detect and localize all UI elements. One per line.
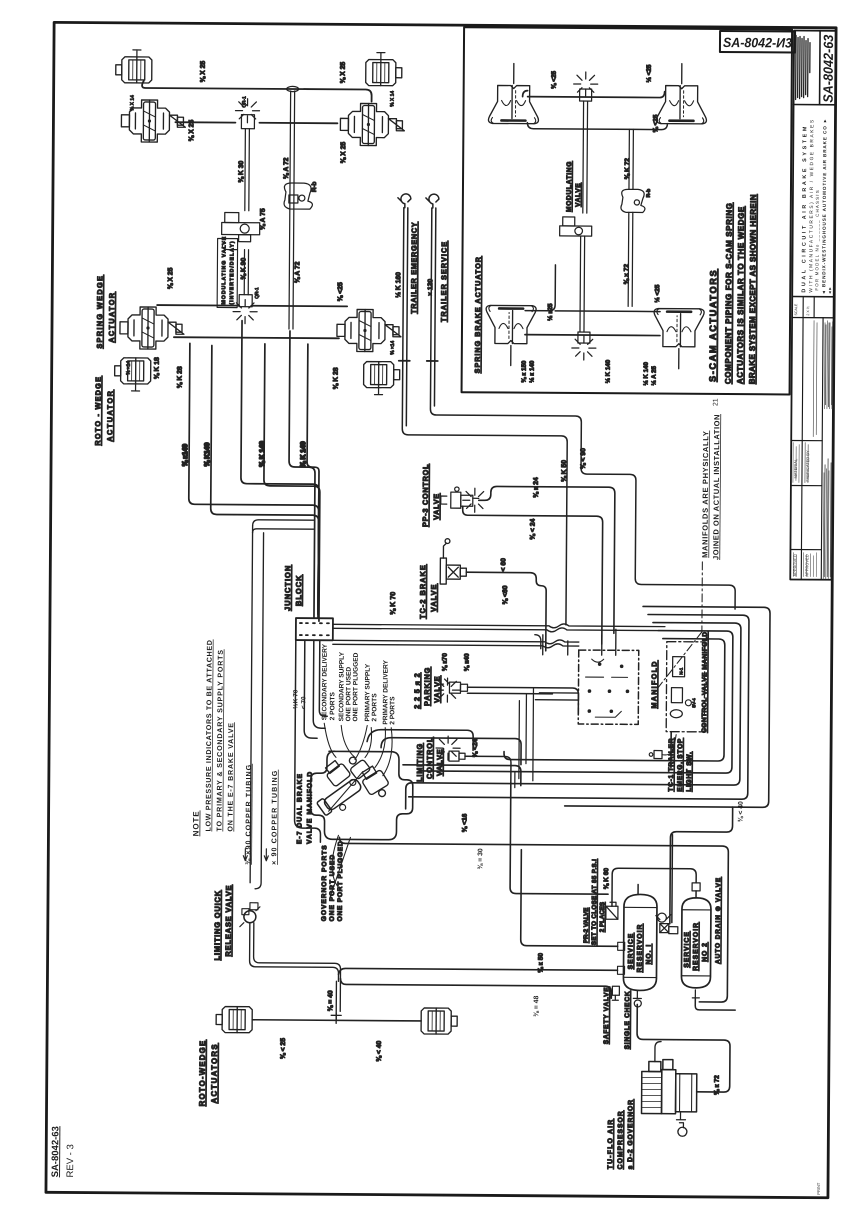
svg-text:⅜ K 28: ⅜ K 28 bbox=[333, 367, 340, 389]
inset panel box bbox=[462, 27, 793, 394]
single check fitting between reservoirs bbox=[656, 915, 678, 934]
svg-text:ON THE E-7 BRAKE VALVE: ON THE E-7 BRAKE VALVE bbox=[226, 722, 235, 831]
s-cam actuator inset bottom-left bbox=[486, 305, 536, 343]
svg-text:2 PORTS: 2 PORTS bbox=[371, 693, 378, 722]
wire: bundle below block a bbox=[304, 640, 318, 738]
res2 top fitting bbox=[692, 883, 700, 891]
svg-text:½ ˂25: ½ ˂25 bbox=[645, 64, 653, 82]
svg-text:× 120: × 120 bbox=[427, 279, 434, 296]
leader dash-dot bbox=[653, 562, 702, 694]
svg-text:PR-2 VALVE: PR-2 VALVE bbox=[583, 908, 590, 944]
svg-text:× 90 COPPER TUBING: × 90 COPPER TUBING bbox=[270, 770, 279, 865]
svg-text:NO. I: NO. I bbox=[646, 944, 653, 965]
svg-text:TC-1 TRAILER: TC-1 TRAILER bbox=[668, 738, 675, 792]
svg-text:⅜ K 90: ⅜ K 90 bbox=[240, 258, 247, 280]
wire: modulating valve down to QR-1 rear bbox=[244, 250, 248, 295]
wire: trailer service line bbox=[429, 208, 738, 609]
title strip: record cells bbox=[801, 318, 803, 580]
wire: trailer emergency line bbox=[401, 208, 569, 625]
svg-text:⅜ ˂25: ⅜ ˂25 bbox=[652, 114, 659, 132]
svg-text:VALVE MANIFOLD: VALVE MANIFOLD bbox=[306, 771, 314, 844]
svg-text:⅜ K140: ⅜ K140 bbox=[204, 442, 211, 466]
res1 top stub bbox=[637, 884, 639, 894]
svg-text:⅜ ˂60: ⅜ ˂60 bbox=[502, 585, 509, 604]
svg-text:2 X ½: 2 X ½ bbox=[806, 306, 810, 315]
TC-1 switch symbol bbox=[654, 751, 662, 759]
svg-text:⅜ ˂16: ⅜ ˂16 bbox=[461, 813, 468, 832]
wire: inset modulating to bottom burst bbox=[580, 236, 585, 332]
wire: loop drop to check fitting bbox=[670, 732, 733, 924]
spring wedge actuator front-right bbox=[340, 103, 404, 145]
svg-text:⅜ × 72: ⅜ × 72 bbox=[623, 264, 630, 285]
svg-text:⅜ A 72: ⅜ A 72 bbox=[283, 157, 290, 179]
stem front-right bbox=[377, 53, 385, 60]
svg-text:MATERIAL: MATERIAL bbox=[793, 458, 798, 479]
service reservoir no 1 bbox=[623, 894, 657, 990]
svg-text:R-b: R-b bbox=[311, 181, 318, 192]
svg-text:E-7 DUAL BRAKE: E-7 DUAL BRAKE bbox=[296, 773, 303, 844]
svg-text:VALVE: VALVE bbox=[432, 675, 441, 703]
svg-text:⅜ K 60: ⅜ K 60 bbox=[603, 868, 610, 890]
svg-text:⅜ ˂25: ⅜ ˂25 bbox=[551, 70, 558, 88]
svg-text:⅜ = 48: ⅜ = 48 bbox=[533, 996, 540, 1017]
trailer service hook bbox=[426, 194, 439, 208]
arrow copper 1 bbox=[243, 849, 247, 861]
svg-text:AUTO DRAIN ⊘ VALVE: AUTO DRAIN ⊘ VALVE bbox=[715, 877, 723, 964]
wire: inset right drop bbox=[628, 129, 633, 306]
svg-text:SA-8042-63: SA-8042-63 bbox=[821, 34, 836, 103]
limiting control valve body bbox=[449, 751, 465, 761]
trailer emergency hook bbox=[398, 194, 411, 208]
svg-text:CONTROL VALVE MANIFOLD: CONTROL VALVE MANIFOLD bbox=[701, 631, 709, 732]
wire: bundle into manifold top bbox=[543, 629, 616, 656]
svg-text:⅜ ˂24: ⅜ ˂24 bbox=[472, 738, 479, 757]
valve body port 2 bbox=[344, 752, 371, 779]
LQR valve body bbox=[244, 911, 256, 923]
svg-text:2 PLACES: 2 PLACES bbox=[599, 902, 606, 932]
manifold inner marks bbox=[585, 659, 627, 717]
svg-text:LIMITING QUICK: LIMITING QUICK bbox=[213, 890, 222, 961]
svg-text:NO 2: NO 2 bbox=[702, 942, 709, 962]
wire: parking valve outlet bbox=[467, 687, 578, 714]
svg-text:VALVE: VALVE bbox=[435, 748, 444, 776]
s-cam actuator inset bottom-right bbox=[654, 309, 704, 347]
svg-text:½ ˂25: ½ ˂25 bbox=[653, 284, 661, 302]
valve QR inset top bbox=[580, 89, 592, 101]
wire: drop pipe F bbox=[306, 344, 320, 618]
svg-text:MANIFOLD: MANIFOLD bbox=[650, 660, 658, 708]
svg-text:COMPRESSOR: COMPRESSOR bbox=[617, 1110, 624, 1169]
svg-text:S-CAM ACTUATORS: S-CAM ACTUATORS bbox=[708, 269, 719, 382]
svg-text:BRAKE SYSTEM EXCEPT AS SHO: BRAKE SYSTEM EXCEPT AS SHOWN HEREIN bbox=[748, 194, 758, 384]
valve QR inset bottom bbox=[578, 332, 590, 343]
svg-text:⅜ K 30: ⅜ K 30 bbox=[238, 160, 245, 182]
svg-text:½ K 140: ½ K 140 bbox=[643, 362, 650, 386]
svg-text:◄ BENDIX-WESTINGHOUSE AUTOMOTI: ◄ BENDIX-WESTINGHOUSE AUTOMOTIVE AIR BRA… bbox=[821, 118, 827, 295]
wire: res2 bottom drop bbox=[695, 998, 735, 1010]
svg-text:⅜ к70: ⅜ к70 bbox=[442, 653, 449, 671]
svg-text:SPRING BRAKE ACTUATOR: SPRING BRAKE ACTUATOR bbox=[474, 256, 483, 373]
title strip: drawing title cell bbox=[792, 296, 834, 298]
svg-text:SA-8042-И3: SA-8042-И3 bbox=[723, 35, 793, 50]
spring wedge actuator rear-left bbox=[120, 307, 184, 349]
roto-wedge actuator rear-left bbox=[115, 358, 151, 384]
wire: PP-3 outlet lower bbox=[462, 506, 603, 644]
roto-wedge actuator bottom-left bbox=[216, 1006, 252, 1032]
wire: loop 4 bbox=[504, 638, 725, 762]
svg-text:QR-1: QR-1 bbox=[242, 96, 248, 108]
svg-text:⅜ ˂ 24: ⅜ ˂ 24 bbox=[530, 518, 537, 539]
svg-text:TRAILER SERVICE: TRAILER SERVICE bbox=[439, 241, 449, 322]
wire: long run y985 bbox=[340, 978, 611, 998]
title strip: scale cell bbox=[792, 316, 834, 318]
wire: TC-2 outlet bbox=[466, 572, 547, 651]
svg-text:JUNCTION: JUNCTION bbox=[283, 565, 292, 611]
roto-wedge actuator bottom-right bbox=[421, 1008, 457, 1034]
svg-text:MODULATING VALVE: MODULATING VALVE bbox=[221, 236, 227, 305]
svg-text:SERVICE: SERVICE bbox=[684, 931, 691, 968]
svg-text:½ к 140: ½ к 140 bbox=[529, 360, 536, 383]
svg-text:NOTE: NOTE bbox=[191, 810, 200, 836]
inner valve bottom bbox=[670, 710, 682, 718]
wire: center drop to check bbox=[671, 835, 674, 923]
wire: block outlet pair right lower bbox=[333, 638, 579, 648]
svg-text:⅜ = 40: ⅜ = 40 bbox=[327, 990, 334, 1011]
R-6 inset relay bbox=[621, 189, 645, 212]
svg-text:RESERVOIR: RESERVOIR bbox=[637, 924, 644, 973]
stem rear-right bbox=[375, 388, 383, 395]
svg-text:⅜ к40: ⅜ к40 bbox=[464, 653, 471, 671]
svg-text:˂ 60: ˂ 60 bbox=[500, 558, 507, 572]
svg-text:⅜ к 50: ⅜ к 50 bbox=[537, 953, 544, 973]
manifold dashed box bbox=[578, 650, 639, 724]
svg-text:⅜ X 25: ⅜ X 25 bbox=[167, 267, 174, 289]
svg-text:⅜ X 25: ⅜ X 25 bbox=[200, 61, 207, 83]
leader bbox=[662, 735, 676, 755]
svg-text:⅜ ˂25: ⅜ ˂25 bbox=[337, 282, 344, 301]
wire: drop pipe E bbox=[288, 331, 316, 618]
svg-text:PARKING: PARKING bbox=[422, 667, 431, 706]
roto-wedge actuator front-right bbox=[366, 60, 402, 86]
wire: rear axle lower pipe bbox=[174, 337, 339, 338]
junction oval on top pipe bbox=[287, 86, 299, 91]
svg-text:2 PORTS: 2 PORTS bbox=[329, 691, 336, 720]
wire: cluster top right run 2 bbox=[381, 738, 521, 765]
svg-text:ACTUATORS IS SIMILAR TO TH: ACTUATORS IS SIMILAR TO THE WEDGE bbox=[736, 206, 746, 384]
valve body port 3 bbox=[358, 764, 393, 802]
parking valve body bbox=[438, 679, 467, 693]
svg-text:⅜ K 140: ⅜ K 140 bbox=[259, 441, 266, 467]
wire: front axle lower pipe bbox=[175, 122, 337, 123]
svg-text:N-1: N-1 bbox=[679, 667, 684, 675]
svg-text:ONE PORT PLUGGED: ONE PORT PLUGGED bbox=[337, 841, 345, 922]
wire: vertical from top pipe junction down to rear axle bbox=[289, 91, 295, 329]
svg-text:LIMITING: LIMITING bbox=[415, 743, 424, 782]
wire: res1 bottom to compressor loop bbox=[637, 1004, 731, 1092]
arrow copper 2 bbox=[264, 849, 268, 861]
svg-text:SPRING WEDGE: SPRING WEDGE bbox=[95, 275, 105, 349]
wire: bundle below block c bbox=[319, 640, 328, 716]
wire: loop outermost bbox=[565, 606, 770, 807]
TC-2 valve body (treadle) bbox=[440, 539, 466, 585]
svg-text:RELEASE VALVE: RELEASE VALVE bbox=[224, 885, 234, 957]
port circles bbox=[350, 779, 356, 785]
wire: PP-3 outlet upper bbox=[478, 486, 615, 633]
wire: compressor inlet from single check drop bbox=[655, 1042, 661, 1062]
svg-text:SERVICE: SERVICE bbox=[628, 933, 635, 970]
wire: cluster-loop verticals bbox=[515, 688, 534, 788]
relay valve R-6 bbox=[284, 183, 313, 209]
leaders from labels to cluster bbox=[324, 723, 392, 775]
svg-text:RESERVOIR: RESERVOIR bbox=[693, 922, 700, 971]
svg-text:SET TO CLOSE AT 85 P.S.I: SET TO CLOSE AT 85 P.S.I bbox=[591, 859, 599, 945]
wire: copper tube vertical pair bbox=[250, 526, 264, 889]
svg-text:ACTUATOR: ACTUATOR bbox=[107, 292, 116, 343]
title strip outline bbox=[790, 31, 836, 580]
valve body main barrel bbox=[317, 776, 364, 816]
wire: copper tube branch pair to left bbox=[253, 520, 314, 533]
svg-text:ROTO-WEDGE: ROTO-WEDGE bbox=[198, 1040, 207, 1107]
svg-text:⅜ = 30: ⅜ = 30 bbox=[477, 848, 484, 869]
svg-text:ѕ D-2 GOVERNOR: ѕ D-2 GOVERNOR bbox=[627, 1099, 634, 1169]
wire: front axle top pipe bbox=[142, 81, 372, 102]
svg-text:⅜ к 24: ⅜ к 24 bbox=[533, 477, 540, 498]
svg-text:SV-4: SV-4 bbox=[691, 698, 696, 708]
svg-text:⅜ ˂ 40: ⅜ ˂ 40 bbox=[738, 801, 745, 822]
inner valve N-1 bbox=[673, 657, 685, 677]
governor stem and ball bbox=[676, 1112, 685, 1128]
valve QR-1 front with body bbox=[241, 115, 254, 129]
junction block body bbox=[296, 618, 333, 640]
svg-text:⅜ ×14: ⅜ ×14 bbox=[390, 340, 396, 354]
svg-text:⅜ к140: ⅜ к140 bbox=[182, 444, 189, 467]
svg-text:ROTO - WEDGE: ROTO - WEDGE bbox=[93, 376, 102, 446]
svg-text:CONTROL: CONTROL bbox=[425, 737, 434, 779]
wire: QR-1 down to modulating valve bbox=[245, 129, 250, 211]
svg-text:⅜ X 25: ⅜ X 25 bbox=[188, 120, 195, 142]
svg-text:½ A 25: ½ A 25 bbox=[651, 365, 658, 385]
manifold outline bbox=[310, 751, 413, 840]
compressor body bbox=[642, 1059, 697, 1113]
svg-text:FOR MODEL No ______ CHASSIS: FOR MODEL No ______ CHASSIS bbox=[814, 189, 820, 291]
wire: inset top second pipe bbox=[527, 123, 667, 130]
roto-wedge actuator rear-right bbox=[364, 362, 400, 388]
stem front-left bbox=[133, 50, 141, 57]
svg-text:BLOCK: BLOCK bbox=[294, 574, 303, 606]
wire: inset modulating drop bbox=[583, 101, 588, 213]
wire: long run y968 to reservoir bbox=[338, 968, 617, 976]
svg-text:VALVE: VALVE bbox=[429, 583, 438, 612]
svg-text:⅜ X 14: ⅜ X 14 bbox=[390, 91, 396, 107]
svg-text:JOINED ON ACTUAL INSTALLATI: JOINED ON ACTUAL INSTALLATION bbox=[711, 414, 721, 560]
wire: inset bottom axle pipe bbox=[525, 265, 660, 312]
wire: limiting drop to y893 run bbox=[510, 783, 609, 895]
svg-text:EMERG. STOP: EMERG. STOP bbox=[677, 738, 684, 792]
svg-text:⅜ ˂ 90: ⅜ ˂ 90 bbox=[580, 448, 587, 469]
wire: loop 2 bbox=[406, 621, 741, 811]
wire: cluster top right run 1 bbox=[367, 730, 473, 751]
svg-text:ACTUATOR: ACTUATOR bbox=[105, 390, 114, 442]
spring wedge actuator front-left bbox=[121, 100, 185, 142]
svg-text:⅜ ˂ 40: ⅜ ˂ 40 bbox=[376, 1040, 383, 1061]
wire: long run y845 bbox=[338, 837, 728, 1002]
svg-text:SAFETY VALVE: SAFETY VALVE bbox=[603, 987, 610, 1045]
svg-text:SECONDARY DELIVERY: SECONDARY DELIVERY bbox=[321, 643, 329, 720]
svg-text:COMPONENT PIPING FOR S-CAM: COMPONENT PIPING FOR S-CAM SPRING bbox=[724, 202, 734, 384]
wire: drop pipe A bbox=[188, 343, 320, 614]
s-cam actuator inset top-right bbox=[656, 86, 706, 124]
svg-text:TRAILER EMERGENCY: TRAILER EMERGENCY bbox=[409, 222, 419, 314]
wire: inset top axle pipe bbox=[523, 91, 665, 98]
svg-text:⅜ A 75: ⅜ A 75 bbox=[260, 208, 267, 230]
svg-text:GOVERNOR PORTS: GOVERNOR PORTS bbox=[321, 844, 329, 921]
svg-text:LOW PRESSURE INDICATORS TO: LOW PRESSURE INDICATORS TO BE ATTACHED bbox=[204, 639, 213, 831]
wire: loop 3 bbox=[421, 629, 733, 773]
manifold dots bbox=[588, 662, 630, 713]
inner valve SV-4 bbox=[671, 688, 682, 703]
roto-wedge actuator front-left bbox=[116, 57, 152, 83]
svg-text:PP-3 CONTROL: PP-3 CONTROL bbox=[421, 464, 430, 527]
res2 bottom fitting bbox=[692, 990, 699, 998]
res1 bottom fitting + single check bbox=[633, 990, 641, 1007]
PP-3 valve body bbox=[441, 487, 479, 508]
wire: axle rod bbox=[252, 1020, 421, 1021]
wire: left jogs into manifold bbox=[534, 635, 578, 700]
svg-text:ACTUATORS: ACTUATORS bbox=[210, 1043, 219, 1104]
wire: cluster right run 3 bbox=[403, 765, 521, 786]
service reservoir no 2 bbox=[681, 898, 711, 988]
svg-text:½ к25: ½ к25 bbox=[546, 303, 554, 321]
wire: continue down to roto-wedge tee bbox=[336, 981, 340, 1020]
svg-text:LIGHT SW.: LIGHT SW. bbox=[686, 751, 693, 791]
svg-text:½ K 160: ½ K 160 bbox=[394, 272, 402, 298]
svg-text:⅜ K 50: ⅜ K 50 bbox=[561, 460, 568, 482]
svg-text:TO PRIMARY & SECONDARY SUP: TO PRIMARY & SECONDARY SUPPLY PORTS bbox=[215, 649, 224, 831]
modulating valve label box bbox=[217, 238, 237, 307]
svg-text:QR-1: QR-1 bbox=[254, 287, 260, 299]
inset modulating valve bbox=[560, 217, 592, 236]
svg-text:PRINT: PRINT bbox=[816, 1182, 821, 1195]
wire: bundle below block b bbox=[313, 640, 326, 728]
svg-text:DUAL CIRCUIT AIR BRAKE SYSTEM: DUAL CIRCUIT AIR BRAKE SYSTEM bbox=[801, 124, 808, 293]
svg-text:VALVE: VALVE bbox=[575, 183, 582, 207]
wire: LQR down and right to roto line bbox=[249, 923, 340, 982]
stems inset bbox=[511, 63, 682, 369]
wire: limiting valve outlet bbox=[465, 756, 511, 782]
svg-text:R-b: R-b bbox=[646, 189, 652, 198]
svg-text:TU-FLO AIR: TU-FLO AIR bbox=[607, 1119, 614, 1170]
stem rear-left bbox=[132, 384, 140, 391]
wire: rear axle top pipe bbox=[157, 305, 347, 306]
svg-text:½ K 140: ½ K 140 bbox=[605, 359, 612, 383]
svg-text:SINGLE CHECK: SINGLE CHECK bbox=[624, 991, 631, 1050]
svg-text:⅜ X 25: ⅜ X 25 bbox=[340, 62, 347, 84]
title strip: number cell bbox=[819, 31, 822, 105]
tick union emergency bbox=[399, 360, 410, 362]
wire: loop outer bbox=[409, 613, 749, 799]
drawing number box top right bbox=[720, 31, 795, 53]
wire: drop pipe C bbox=[240, 321, 320, 612]
modulating valve body bbox=[222, 213, 260, 250]
svg-text:FABRICATED BY: FABRICATED BY bbox=[805, 450, 810, 482]
PR-2 valve bbox=[606, 902, 618, 919]
safety valve symbol bbox=[612, 986, 619, 1000]
s-cam actuator inset top-left bbox=[488, 85, 538, 123]
svg-text:⅜ к 150: ⅜ к 150 bbox=[521, 360, 528, 383]
wire: cluster feed down left bbox=[294, 640, 321, 842]
svg-text:APPROVED: APPROVED bbox=[804, 554, 809, 576]
wire: drop pipe B bbox=[210, 345, 320, 614]
svg-text:VALVE: VALVE bbox=[432, 493, 441, 520]
svg-text:◄►: ◄► bbox=[827, 286, 832, 294]
svg-text:21: 21 bbox=[712, 398, 719, 406]
svg-text:SA-8042-63: SA-8042-63 bbox=[50, 1126, 61, 1177]
valve QR-1 rear with burst bbox=[239, 295, 252, 307]
svg-text:⅜ K 140: ⅜ K 140 bbox=[300, 441, 307, 467]
svg-text:REV - 3: REV - 3 bbox=[65, 1144, 76, 1177]
svg-text:MODULATING: MODULATING bbox=[566, 161, 573, 212]
spring wedge actuator rear-right bbox=[337, 309, 401, 351]
wire: inset bottom second pipe bbox=[525, 334, 660, 337]
valve body port 1 bbox=[322, 758, 351, 787]
svg-text:⅜ к 72: ⅜ к 72 bbox=[714, 1075, 721, 1095]
svg-text:TC-2 BRAKE: TC-2 BRAKE bbox=[418, 564, 427, 619]
svg-text:⅜ K 28: ⅜ K 28 bbox=[177, 366, 184, 388]
svg-text:⅜ X 25: ⅜ X 25 bbox=[340, 142, 347, 164]
svg-text:MANIFOLDS ARE PHYSICALLY: MANIFOLDS ARE PHYSICALLY bbox=[700, 430, 710, 558]
wire: drop pipe D bbox=[263, 344, 321, 621]
leader governor ports bbox=[330, 835, 350, 897]
svg-text:⅜ ˂ 25: ⅜ ˂ 25 bbox=[280, 1038, 287, 1059]
wire: block outlet pair right upper bbox=[333, 622, 665, 632]
tick union service bbox=[427, 360, 438, 362]
svg-text:(INVERTED/DELAY): (INVERTED/DELAY) bbox=[229, 240, 235, 304]
svg-text:⅜ K 18: ⅜ K 18 bbox=[154, 357, 161, 379]
svg-text:2 PORTS: 2 PORTS bbox=[389, 696, 396, 725]
svg-text:SCALE: SCALE bbox=[794, 303, 798, 315]
tee at drop bbox=[331, 1013, 341, 1023]
svg-text:2 2 5 я 2: 2 2 5 я 2 bbox=[412, 672, 421, 708]
wire: x523 drop to res1 port bbox=[521, 850, 619, 947]
svg-text:ONE PORT PLUGGED: ONE PORT PLUGGED bbox=[352, 652, 359, 721]
res1 side fittings bbox=[618, 942, 625, 950]
svg-text:⅜ ×14: ⅜ ×14 bbox=[126, 361, 132, 375]
svg-text:⅜ A 72: ⅜ A 72 bbox=[294, 261, 301, 283]
svg-text:⅜ K 72: ⅜ K 72 bbox=[624, 158, 631, 180]
svg-text:⅜ K 70: ⅜ K 70 bbox=[389, 592, 397, 615]
svg-text:⅜ X 14: ⅜ X 14 bbox=[130, 95, 136, 111]
wire: PR-2 riser and to res2 top bbox=[612, 868, 696, 907]
control valve manifold dash-dot box bbox=[666, 642, 705, 732]
